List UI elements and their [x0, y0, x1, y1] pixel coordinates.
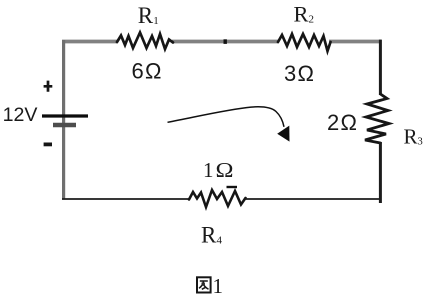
wire bottom right segment [245, 198, 382, 200]
svg-text:3: 3 [284, 61, 296, 86]
resistor R4 [189, 190, 246, 207]
svg-text:2: 2 [327, 110, 339, 135]
svg-text:1: 1 [153, 15, 159, 27]
resistor R1 [117, 33, 173, 50]
svg-text:Ω: Ω [341, 110, 357, 135]
label minus [44, 142, 52, 146]
svg-text:R: R [201, 223, 217, 248]
wire right vertical top [379, 40, 382, 95]
label plus [44, 81, 53, 92]
svg-text:1: 1 [213, 274, 224, 298]
svg-text:4: 4 [217, 235, 223, 247]
wire top-right segment [329, 40, 381, 44]
svg-text:1: 1 [203, 158, 214, 182]
battery B1 negative plate [53, 123, 76, 128]
junction dot on top wire [224, 39, 227, 44]
svg-text:Ω: Ω [298, 61, 314, 86]
current direction arrowhead [277, 126, 289, 142]
overline mark above R4 [227, 186, 238, 188]
caption figure character box [197, 277, 211, 292]
wire bottom left segment [62, 198, 190, 200]
wire top-left segment [62, 40, 118, 44]
svg-text:R: R [294, 2, 309, 27]
wire left vertical [62, 40, 65, 199]
svg-text:2: 2 [309, 14, 315, 26]
current direction arrow curve [168, 107, 285, 127]
resistor R2 [278, 34, 331, 51]
resistor R3 [365, 94, 389, 143]
svg-text:12V: 12V [3, 104, 38, 126]
svg-text:3: 3 [418, 137, 423, 148]
svg-text:R: R [138, 3, 154, 28]
wire right vertical bottom [379, 142, 382, 203]
svg-text:Ω: Ω [145, 59, 161, 84]
svg-text:6: 6 [132, 59, 144, 84]
battery B1 positive plate [42, 114, 88, 117]
svg-text:Ω: Ω [216, 158, 234, 182]
svg-text:R: R [404, 125, 418, 149]
wire top-middle segment [172, 40, 279, 44]
